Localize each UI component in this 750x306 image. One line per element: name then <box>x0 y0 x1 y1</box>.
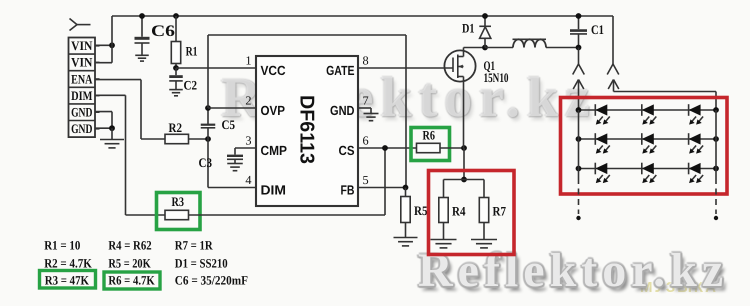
value text R1 row <box>44 239 80 253</box>
ground below R5 <box>394 223 418 246</box>
transistor Q1 MOSFET symbol <box>444 48 475 82</box>
wire VCC pin1 <box>176 67 256 69</box>
svg-text:R4 = R62: R4 = R62 <box>108 239 151 253</box>
svg-text:R2: R2 <box>169 120 183 135</box>
wire source node to R4R7 node <box>463 148 465 180</box>
ground below C6 <box>135 43 149 61</box>
node B junction (R2/C5/DIM pin4) <box>205 136 211 142</box>
pin number 8 <box>363 54 369 68</box>
label D1 <box>462 21 475 36</box>
svg-text:3: 3 <box>245 134 251 148</box>
wire node A to top rail <box>111 16 113 45</box>
svg-text:C6: C6 <box>151 23 175 40</box>
highlight box around R6 <box>411 128 450 161</box>
svg-text:5: 5 <box>363 173 369 187</box>
svg-text:GND: GND <box>71 105 92 120</box>
LED D6 row 2 col 2 <box>642 133 657 153</box>
wire LED left column <box>578 110 580 178</box>
label R6 <box>423 128 436 143</box>
junction CS/R3 node <box>382 145 388 151</box>
svg-text:VIN: VIN <box>71 55 93 70</box>
junction LED row 3 right <box>713 166 719 172</box>
op-amp/driver IC U1 DF6113 body <box>256 56 358 206</box>
svg-text:GATE: GATE <box>326 63 355 78</box>
svg-text:R3: R3 <box>172 194 185 209</box>
ground below R4 <box>431 223 457 248</box>
connector fork 1 <box>573 48 585 75</box>
pin label GATE <box>326 63 355 78</box>
pin label GND <box>330 103 355 118</box>
LED D3 row 1 col 2 <box>642 104 657 124</box>
svg-text:FB: FB <box>341 182 355 197</box>
label C2 <box>184 78 198 93</box>
LED D9 row 3 col 2 <box>642 163 657 183</box>
svg-text:R4: R4 <box>452 204 466 219</box>
LED D7 row 2 col 3 <box>689 133 704 153</box>
highlight box around R3 = 47K <box>40 271 96 289</box>
wire DIM connector to R3 <box>95 95 165 215</box>
svg-text:6: 6 <box>363 134 369 148</box>
ground below R7 <box>471 223 497 248</box>
LED D2 row 1 col 1 <box>595 104 610 124</box>
capacitor C5 <box>201 108 216 139</box>
wire top rail <box>112 15 613 17</box>
label R5 <box>414 203 428 218</box>
connector J1 (VIN VIN ENA DIM GND GND) <box>69 38 100 138</box>
value text R4 row <box>108 239 151 253</box>
label Q1 <box>484 58 496 73</box>
svg-text:GND: GND <box>330 103 355 118</box>
wire GND1 <box>95 111 112 113</box>
faint sub watermark <box>640 279 718 296</box>
svg-text:R6: R6 <box>423 128 436 143</box>
svg-text:R5: R5 <box>414 203 428 218</box>
dashed continuation left <box>576 178 580 220</box>
value text R2 row <box>44 256 92 270</box>
wire CMP pin3 <box>235 148 256 155</box>
LED D4 row 1 col 3 <box>689 104 704 124</box>
capacitor C2 <box>169 68 183 81</box>
svg-text:R2 = 4.7K: R2 = 4.7K <box>44 256 92 270</box>
LED D5 row 2 col 1 <box>595 133 610 153</box>
svg-text:4: 4 <box>245 173 251 187</box>
junction R1/top rail <box>173 13 179 19</box>
value text D1 row <box>175 256 228 270</box>
label DF6113 <box>296 95 318 164</box>
ground at pin7 <box>364 108 379 121</box>
pin label VCC <box>261 63 287 78</box>
wire R4R7 top <box>444 179 485 181</box>
pin label OVP <box>261 103 286 118</box>
connector arrow 1 <box>573 80 584 111</box>
value text C6 row <box>175 274 248 288</box>
wire VIN2 up to node A <box>95 45 112 62</box>
svg-text:C5: C5 <box>222 117 236 132</box>
wire node C up and over to FB node <box>208 35 406 188</box>
svg-text:R7: R7 <box>493 204 507 219</box>
svg-text:R6 = 4.7K: R6 = 4.7K <box>108 274 154 288</box>
wire CS pin6 <box>358 147 417 149</box>
junction C6/top rail <box>139 13 145 19</box>
resistor R6 <box>417 143 441 152</box>
wire node B down to DIM pin4 <box>208 139 256 188</box>
wire OVP pin2 <box>208 107 256 109</box>
svg-text:VIN: VIN <box>71 38 93 53</box>
connector fork 2 <box>607 16 619 75</box>
value text R7 row <box>175 239 214 253</box>
wire R6 to source node <box>440 147 464 149</box>
wire LED row 3 <box>579 168 717 170</box>
diode D1 <box>479 16 491 48</box>
junction D1/top rail <box>482 13 488 19</box>
label 15N10 <box>484 70 509 85</box>
svg-text:R3 = 47K: R3 = 47K <box>45 274 89 288</box>
resistor R5 <box>401 188 410 223</box>
wire L1 to C1 node <box>546 47 579 49</box>
pin number 2 <box>245 94 251 108</box>
svg-text:R7 = 1R: R7 = 1R <box>175 239 214 253</box>
junction GND1/GND2 <box>109 125 115 131</box>
input connector arrow symbol <box>70 19 91 31</box>
wire arrow2 to LED array right <box>614 92 717 111</box>
junction FB/R5 <box>403 185 409 191</box>
junction LED row 3 left <box>576 166 582 172</box>
pin number 7 <box>363 94 369 108</box>
pin label FB <box>341 182 355 197</box>
svg-text:C3: C3 <box>199 155 213 170</box>
svg-text:C1: C1 <box>591 22 604 37</box>
svg-text:R5 = 20K: R5 = 20K <box>108 256 150 270</box>
wire GATE pin8 to Q1 gate <box>358 67 453 69</box>
label R2 <box>169 120 183 135</box>
junction LED row 1 left <box>576 107 582 113</box>
connector arrow 2 <box>608 80 619 92</box>
value text R5 row <box>108 256 150 270</box>
wire Q1 drain to D1 node <box>464 47 486 49</box>
junction LED row 1 right <box>713 107 719 113</box>
resistor R7 <box>479 180 488 223</box>
pin number 1 <box>245 54 251 68</box>
svg-text:8: 8 <box>363 54 369 68</box>
svg-text:D1 = SS210: D1 = SS210 <box>175 256 228 270</box>
junction LED row 2 right <box>713 136 719 142</box>
label C5 <box>222 117 236 132</box>
highlight box around LED array <box>561 98 728 195</box>
pin label CMP <box>261 143 288 158</box>
pin label CS <box>339 143 355 158</box>
LED D10 row 3 col 3 <box>689 163 704 183</box>
svg-text:CMP: CMP <box>261 143 288 158</box>
ground below C3 <box>227 159 243 170</box>
svg-text:ENA: ENA <box>71 71 93 86</box>
pin number 6 <box>363 134 369 148</box>
capacitor C1 <box>570 16 587 48</box>
resistor R2 <box>165 134 189 143</box>
watermark bottom <box>418 243 728 298</box>
value text R6 row <box>108 274 154 288</box>
LED D8 row 3 col 1 <box>595 163 610 183</box>
svg-text:OVP: OVP <box>261 103 286 118</box>
junction R4/R7 top <box>461 177 467 183</box>
svg-text:DIM: DIM <box>71 88 92 103</box>
junction C1/top rail <box>576 13 582 19</box>
junction D1/L1/drain <box>482 45 488 51</box>
junction C1/L1 <box>576 45 582 51</box>
watermark middle <box>221 66 597 130</box>
resistor R3 <box>165 210 189 219</box>
wire LED right column <box>715 110 717 178</box>
junction LED row 2 left <box>576 136 582 142</box>
resistor R4 <box>439 180 448 223</box>
svg-text:D1: D1 <box>462 21 475 36</box>
resistor R1 <box>171 16 180 68</box>
ground below connector <box>100 128 124 148</box>
wire R2 to node B <box>189 138 209 140</box>
junction R6/Q1 source <box>461 145 467 151</box>
svg-text:DF6113: DF6113 <box>296 95 318 164</box>
label R4 <box>452 204 466 219</box>
label R1 <box>186 43 198 58</box>
label R7 <box>493 204 507 219</box>
wire VIN1 to node A <box>95 44 112 46</box>
wire R3 to CS node <box>189 148 386 215</box>
svg-text:VCC: VCC <box>261 63 287 78</box>
value text R3 row <box>45 274 89 288</box>
capacitor C6 <box>135 16 150 43</box>
highlight box around R3 <box>157 193 201 230</box>
svg-text:C6 = 35/220mF: C6 = 35/220mF <box>175 274 248 288</box>
dashed continuation right <box>714 178 718 220</box>
svg-text:7: 7 <box>363 94 369 108</box>
inductor L1 <box>485 39 546 47</box>
pin number 5 <box>363 173 369 187</box>
highlight box around R6 = 4.7K <box>104 272 160 289</box>
node C junction (OVP/C5) <box>205 105 211 111</box>
wire LED row 1 <box>579 109 717 111</box>
wire GND pin7 <box>358 107 371 109</box>
svg-text:1: 1 <box>245 54 251 68</box>
pin number 4 <box>245 173 251 187</box>
svg-text:C2: C2 <box>184 78 198 93</box>
junction R1/C2/VCC <box>173 65 179 71</box>
svg-text:R1 = 10: R1 = 10 <box>44 239 80 253</box>
node A junction <box>109 42 115 48</box>
wire Q1 source down <box>463 77 465 149</box>
svg-text:GND: GND <box>71 121 92 136</box>
label R3 <box>172 194 185 209</box>
wire GND2 <box>95 112 112 129</box>
wire FB pin5 <box>358 187 406 189</box>
pin number 3 <box>245 134 251 148</box>
wire ENA to R2 <box>95 80 165 139</box>
label C1 <box>591 22 604 37</box>
pin label DIM <box>261 182 287 197</box>
capacitor C3 <box>227 156 243 160</box>
label C3 <box>199 155 213 170</box>
ground below C2 <box>169 81 183 96</box>
label C6 <box>151 23 175 40</box>
svg-text:R1: R1 <box>186 43 198 58</box>
highlight box around R4 R7 <box>429 171 515 255</box>
svg-text:2: 2 <box>245 94 251 108</box>
svg-text:DIM: DIM <box>261 182 287 197</box>
svg-text:CS: CS <box>339 143 355 158</box>
svg-text:15N10: 15N10 <box>484 70 509 85</box>
wire LED row 2 <box>579 138 717 140</box>
